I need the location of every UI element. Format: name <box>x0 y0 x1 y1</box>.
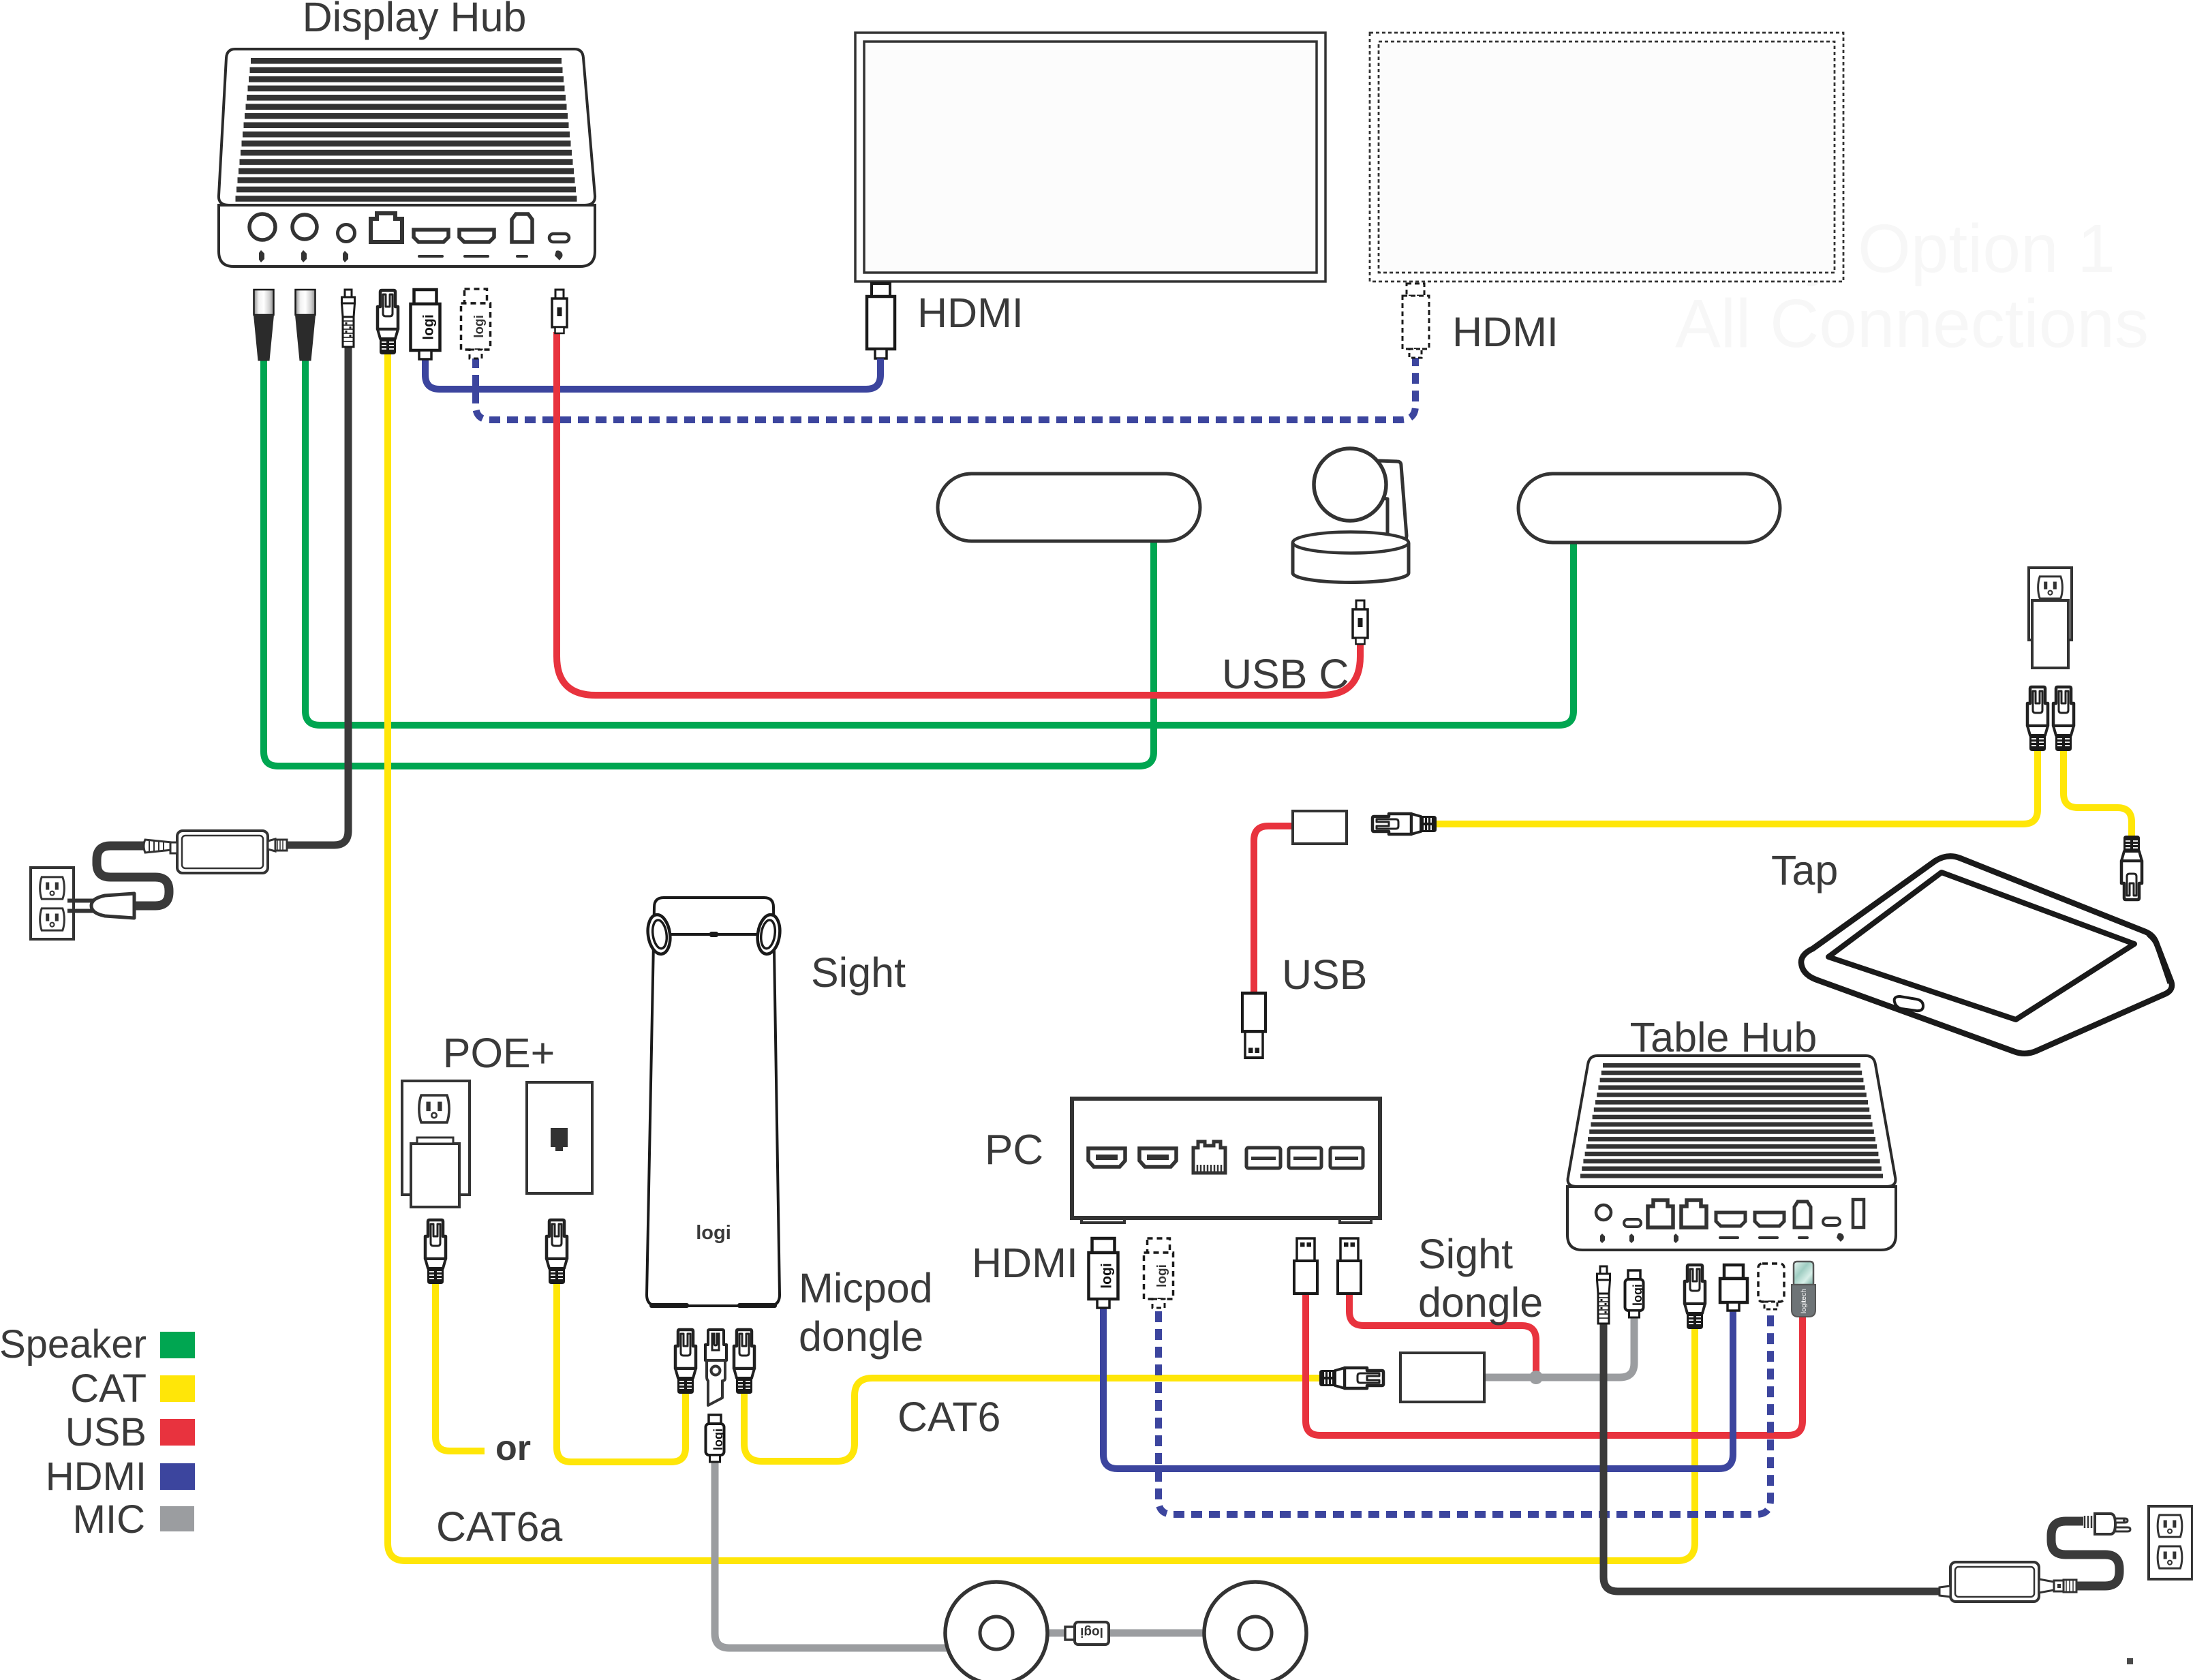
svg-text:USB C: USB C <box>1222 651 1349 697</box>
PC box <box>1072 1099 1380 1218</box>
connector: RJ45 plug facing left <box>1372 814 1436 834</box>
Sight left camera ear <box>645 913 673 956</box>
Tap front edge seam <box>1802 968 2012 1052</box>
wire: yellow wall jack cable to Sight left port <box>557 1278 686 1462</box>
connector: micpod link dongle <box>1065 1622 1109 1645</box>
legend swatch green <box>160 1332 195 1358</box>
POE injector box <box>2032 600 2068 668</box>
Display Hub port: small circle <box>338 225 355 242</box>
connector: USB-A plug 2 below PC <box>1338 1238 1361 1294</box>
small mark bottom right <box>2127 1658 2133 1664</box>
legend swatch yellow <box>160 1375 195 1402</box>
wire: yellow CAT6a cable (Display Hub to Table Hub) <box>388 353 1695 1561</box>
wire: yellow POE injector cable with open end (or) <box>435 1278 485 1451</box>
connector: RJ45 pointing down above Tap <box>2121 836 2142 900</box>
power brick (right) <box>1939 1562 2039 1602</box>
svg-text:CAT6: CAT6 <box>898 1394 1000 1440</box>
POE injector outlet receptacle <box>2038 577 2063 598</box>
wall outlet (left) <box>31 868 74 939</box>
Display Hub front face <box>219 205 595 266</box>
camera arm <box>1378 461 1407 540</box>
wire: red USB cable (PC USB-A 1 to logitech dongle) <box>1306 1292 1803 1435</box>
svg-text:All Connections: All Connections <box>1675 286 2149 362</box>
Speaker 1 <box>938 474 1200 541</box>
wire: yellow cable (POE injector port 2 to Tap connector) <box>2064 748 2132 838</box>
svg-text:USB: USB <box>65 1410 147 1454</box>
wire: yellow cable (extender RJ45 to POE injector port 1) <box>1435 748 2038 824</box>
Table Hub port: USB-C oval <box>1823 1218 1840 1225</box>
connector: Sight RJ45 right <box>734 1330 754 1393</box>
power plug (left) <box>67 894 134 918</box>
wire: blue HDMI cable (Display Hub to Display 1) <box>425 358 880 389</box>
connector: dashed HDMI plug below Display 2 <box>1402 284 1429 358</box>
wall outlet (right) <box>2149 1506 2192 1579</box>
svg-text:POE+: POE+ <box>443 1030 555 1076</box>
wire: dashed blue HDMI cable (Display Hub to Display 2) <box>476 357 1415 420</box>
wire: yellow CAT6 cable (Sight right port to Sight dongle) <box>744 1378 1321 1461</box>
svg-text:Display Hub: Display Hub <box>303 0 527 40</box>
wire: blue HDMI cable (PC to Table Hub) <box>1103 1307 1733 1469</box>
connector: dashed HDMI plug below PC <box>1144 1238 1174 1308</box>
svg-text:HDMI: HDMI <box>46 1454 147 1499</box>
Table Hub port: HDMI 1 <box>1716 1212 1745 1226</box>
Table Hub port icons <box>1600 1233 1844 1243</box>
legend swatch gray <box>160 1506 194 1531</box>
PC foot right <box>1340 1218 1371 1223</box>
Display 1 outer frame <box>855 33 1325 281</box>
connector: DC barrel below Table Hub <box>1597 1266 1610 1324</box>
connector: XLR speaker plug 1 <box>254 290 274 361</box>
Table Hub port: power circle <box>1596 1205 1611 1220</box>
PC foot left <box>1082 1218 1124 1223</box>
connector: POE RJ45 1 <box>2027 687 2048 750</box>
svg-text:logitech: logitech <box>1800 1289 1808 1313</box>
connector: USB-C plug (red) <box>552 290 567 333</box>
Display Hub top face <box>219 49 595 205</box>
Display Hub port: USB-C oval <box>549 234 569 242</box>
junction dot on gray cable <box>1529 1371 1543 1384</box>
DC barrel on brick (left) <box>268 839 287 851</box>
Display Hub port icons row <box>259 250 562 262</box>
extender box <box>1293 811 1347 844</box>
Speaker 2 <box>1518 474 1780 543</box>
camera head <box>1314 448 1386 521</box>
svg-text:y Option 1: y Option 1 <box>1805 211 2115 287</box>
connector: XLR speaker plug 2 <box>296 290 316 361</box>
wire: gray micpod cable (Sight micpod dongle to micpod 1) <box>715 1461 949 1648</box>
Table Hub port: RJ45 1 <box>1648 1200 1673 1227</box>
Display Hub port: mic in circle <box>292 215 317 239</box>
camera base top ellipse <box>1293 532 1409 553</box>
connector: dashed USB plug below Table Hub <box>1758 1264 1784 1309</box>
connector: blue HDMI plug below Table Hub <box>1720 1265 1747 1311</box>
connector: RJ45 plug facing right into dongle box <box>1320 1368 1383 1388</box>
connector: HDMI logi plug below PC <box>1089 1238 1118 1308</box>
svg-text:HDMI: HDMI <box>917 290 1024 336</box>
svg-text:Sight: Sight <box>1418 1231 1513 1277</box>
wire: gray cable (Sight dongle box to Table Hub usbc) <box>1484 1315 1634 1377</box>
micpod 2 center ring <box>1239 1617 1272 1649</box>
Display 1 inner frame <box>864 42 1317 273</box>
wire: red USB C cable (Display Hub to camera) <box>557 332 1360 695</box>
Display Hub vent bars <box>236 58 577 202</box>
wire: dashed blue cable (PC to Table Hub) <box>1159 1294 1770 1514</box>
connector: Sight RJ45 left <box>675 1330 696 1393</box>
camera base body <box>1293 543 1409 583</box>
connector: HDMI plug below Display 1 <box>867 284 895 361</box>
svg-text:HDMI: HDMI <box>1452 309 1559 355</box>
Sight foot right <box>737 1303 777 1308</box>
Tap body <box>1801 856 2172 1053</box>
connector: USB-A plug 1 below PC <box>1294 1238 1317 1294</box>
svg-text:Micpod: Micpod <box>799 1265 933 1311</box>
micpod 1 <box>945 1582 1047 1680</box>
connector: Sight RJ45 middle with micpod dongle tag <box>705 1330 726 1405</box>
Table Hub port: HDMI 2 <box>1755 1212 1784 1226</box>
Display 2 dashed outer frame <box>1370 33 1843 281</box>
svg-text:logi: logi <box>1080 1625 1103 1639</box>
PC port USB 1 <box>1246 1148 1280 1168</box>
svg-text:Table Hub: Table Hub <box>1630 1014 1818 1060</box>
power cord S-curve (right) <box>2051 1521 2119 1586</box>
POE wall outlet with injector <box>402 1081 470 1207</box>
connector: USB-C plug below camera <box>1353 600 1368 644</box>
legend swatch red <box>160 1419 195 1446</box>
connector: gray USB-C logi below Table Hub <box>1625 1270 1644 1317</box>
svg-text:USB: USB <box>1282 951 1367 998</box>
power plug (right) <box>2085 1514 2130 1534</box>
PC port RJ45 <box>1193 1142 1225 1173</box>
connector: RJ45 below wall jack <box>547 1220 567 1283</box>
svg-text:Speaker: Speaker <box>0 1322 147 1366</box>
Sight crossbar center notch <box>709 932 718 937</box>
svg-text:dongle: dongle <box>1418 1279 1543 1326</box>
Table Hub front face <box>1567 1187 1896 1250</box>
svg-text:MIC: MIC <box>73 1497 145 1542</box>
svg-text:Tap: Tap <box>1771 847 1838 894</box>
Sight crossbar between cameras <box>669 933 758 936</box>
Sight dongle box <box>1400 1353 1484 1402</box>
Tap screen <box>1828 872 2134 1020</box>
PC port USB 2 <box>1289 1148 1321 1168</box>
svg-text:CAT: CAT <box>70 1366 147 1411</box>
svg-text:CAT6a: CAT6a <box>436 1503 562 1550</box>
wire: green speaker cable 2 (Display Hub to Speaker 2) <box>305 352 1574 725</box>
Sight right camera ear <box>755 913 782 956</box>
Table Hub port: USB-B <box>1794 1202 1811 1227</box>
connector: USB-A plug pointing down <box>1242 993 1266 1058</box>
Display Hub port: HDMI 2 <box>459 230 494 242</box>
Sight foot left <box>649 1303 689 1308</box>
connector: RJ45 below POE outlet <box>425 1220 446 1283</box>
Display Hub port: USB-B <box>512 214 532 242</box>
wire: black power cable (Display Hub to power brick) <box>286 344 348 845</box>
svg-text:HDMI: HDMI <box>972 1240 1078 1286</box>
power cord S-curve (left) <box>97 846 169 906</box>
power brick (left) <box>170 831 268 873</box>
micpod 2 <box>1204 1582 1306 1680</box>
Sight tower body <box>647 898 780 1306</box>
svg-text:dongle: dongle <box>799 1313 923 1360</box>
DC connector on brick (right) <box>2039 1579 2076 1593</box>
wire: red USB cable (PC USB-A 2 to gray junction) <box>1349 1292 1536 1377</box>
micpod 1 center ring <box>980 1617 1013 1649</box>
connector: DC power barrel plug <box>342 290 355 347</box>
legend swatch blue <box>160 1463 195 1490</box>
connector: dashed HDMI plug (optional) <box>461 289 491 358</box>
connector: HDMI logi plug (blue) <box>411 290 440 359</box>
wire: green speaker cable 1 (Display Hub to Speaker 1) <box>264 352 1154 766</box>
connector: RJ45 plug (CAT6a) <box>378 290 398 354</box>
PC port HDMI 2 <box>1139 1148 1176 1167</box>
wire: gray micpod link cable 2 <box>1108 1630 1206 1637</box>
svg-text:or: or <box>495 1429 531 1468</box>
Display 2 dashed inner frame <box>1379 42 1835 273</box>
AC cord strain relief at brick (left) <box>144 840 172 853</box>
Table Hub top face <box>1568 1056 1896 1187</box>
connector: micpod dongle USB-C <box>706 1415 725 1462</box>
connector: logitech wireless dongle <box>1792 1262 1815 1317</box>
wire: red USB cable (extender box to USB-A plug) <box>1254 826 1293 992</box>
connector: POE RJ45 2 <box>2053 687 2074 750</box>
svg-text:PC: PC <box>985 1127 1043 1174</box>
Table Hub port: USB-A <box>1853 1200 1864 1227</box>
connector: yellow RJ45 below Table Hub <box>1685 1265 1705 1328</box>
wire: black power cable (Table Hub to power brick 2) <box>1604 1320 1939 1591</box>
Display Hub port: line out circle <box>249 214 275 240</box>
wire: gray micpod link cable 1 <box>1046 1630 1067 1637</box>
PC port USB 3 <box>1330 1148 1363 1168</box>
Tap front button <box>1895 996 1923 1011</box>
Table Hub port: micro oval <box>1624 1219 1641 1227</box>
Table Hub vent bars <box>1580 1063 1883 1178</box>
Display Hub port: RJ45 <box>371 213 402 242</box>
POE injector outlet plate <box>2029 568 2072 640</box>
Display Hub port: HDMI 1 <box>414 230 448 242</box>
wall jack plate <box>527 1082 592 1193</box>
Table Hub port: RJ45 2 <box>1681 1200 1706 1227</box>
svg-text:Sight: Sight <box>811 949 906 996</box>
PC port HDMI 1 <box>1088 1148 1125 1167</box>
svg-text:logi: logi <box>696 1222 731 1244</box>
Tap wedge edge <box>2148 935 2169 983</box>
